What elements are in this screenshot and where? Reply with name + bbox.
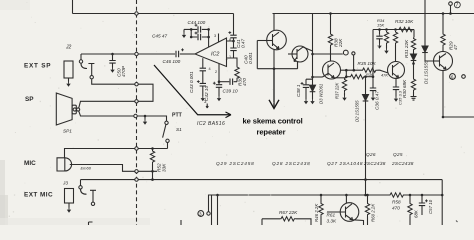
- svg-text:2SC2438: 2SC2438: [363, 161, 386, 166]
- svg-text:R46 2.2K: R46 2.2K: [314, 203, 319, 222]
- wire top rail left: [73, 13, 234, 15]
- junction R38 rail: [329, 12, 332, 15]
- svg-text:22K: 22K: [338, 38, 343, 48]
- terminal 3 circled: [198, 211, 204, 217]
- junction terminal 7 rail: [449, 12, 452, 15]
- node feedthrough mic hot: [135, 147, 138, 150]
- svg-text:4: 4: [209, 67, 211, 71]
- svg-text:2: 2: [215, 70, 217, 74]
- pin 3 stub: [218, 34, 220, 43]
- svg-text:R67 22K: R67 22K: [279, 210, 298, 215]
- switch S1 PTT: [165, 121, 168, 124]
- resistor R38 22K: [330, 14, 332, 34]
- node terminal open circle: [352, 52, 355, 55]
- svg-text:2SC2438: 2SC2438: [391, 161, 414, 166]
- wire mic return stub: [138, 170, 157, 172]
- junction mid vertical node a: [311, 53, 314, 56]
- speck: [456, 221, 458, 223]
- LEFT TEXT LABELS: [24, 63, 53, 199]
- capacitor C41 0.47: [230, 35, 236, 38]
- resistor R33: [393, 31, 397, 45]
- junction terminal stub: [353, 69, 356, 72]
- dashed boundary line: [136, 0, 138, 225]
- svg-text:MIC: MIC: [24, 160, 36, 167]
- svg-text:R61: R61: [327, 213, 336, 218]
- bold annotation text ke skema control repeater: [243, 116, 303, 136]
- svg-text:R36: R36: [366, 72, 374, 77]
- svg-text:EXT SP: EXT SP: [24, 63, 51, 70]
- svg-text:S1: S1: [176, 127, 182, 132]
- junction D2 top: [364, 75, 367, 78]
- capacitor C38 1: [306, 79, 313, 84]
- junction C37 rail: [378, 28, 381, 31]
- svg-text:3: 3: [214, 34, 216, 38]
- wire mic hot: [65, 149, 136, 158]
- capacitor C43 0.001: [202, 58, 204, 68]
- wire to speaker plus: [80, 100, 135, 102]
- svg-text:C38 1: C38 1: [296, 84, 301, 97]
- RIGHT TEXT LABELS: [296, 2, 460, 122]
- svg-text:R31 22K: R31 22K: [404, 39, 409, 58]
- svg-text:repeater: repeater: [256, 127, 285, 136]
- junction C45 right: [207, 36, 210, 39]
- C44/C45 feedback caps network: [184, 28, 209, 30]
- junction C44 left top: [190, 28, 193, 31]
- wire C44 network right node to pin: [208, 29, 210, 47]
- wire C44 network left node: [190, 29, 192, 37]
- svg-text:3: 3: [199, 212, 202, 217]
- junction output node: [273, 67, 276, 70]
- svg-text:R37 22K: R37 22K: [335, 82, 340, 99]
- diode D3 W2061: [312, 77, 314, 85]
- wire mic return: [70, 165, 135, 172]
- resistor R52 33K: [150, 150, 154, 164]
- svg-text:Em60: Em60: [81, 166, 92, 171]
- diode below R31: [411, 54, 417, 60]
- transistor Q (circle5): [434, 52, 453, 71]
- power column C41 / C40: [233, 14, 235, 35]
- svg-text:D3 W2061: D3 W2061: [319, 83, 324, 104]
- mid vertical from rail: [312, 14, 314, 78]
- capacitor C40 0.001: [230, 48, 236, 51]
- svg-text:C57 10: C57 10: [428, 199, 433, 214]
- junction pin 8 node: [232, 40, 235, 43]
- wire J2 to speaker loop: [92, 79, 135, 84]
- resistor R32 10K: [398, 27, 414, 31]
- diode D1 column: [424, 0, 426, 46]
- pin 3 callout arrow: [206, 104, 208, 109]
- svg-text:IC2: IC2: [211, 51, 219, 57]
- junction D2 bus: [364, 194, 367, 197]
- transistor Q (circle1): [273, 14, 275, 31]
- svg-text:Q26: Q26: [366, 152, 376, 157]
- junction D3 node: [311, 76, 314, 79]
- svg-text:R30 68K: R30 68K: [402, 79, 407, 98]
- junction R31 column: [412, 62, 415, 65]
- resistor R30 68K: [411, 78, 415, 92]
- capacitor C36 0.47: [370, 88, 376, 91]
- junction C36 column: [372, 75, 375, 78]
- scan shading left edge: [0, 160, 5, 225]
- capacitor C37 1: [379, 30, 381, 36]
- transistor Q (circle2): [292, 46, 308, 62]
- junction C57 bus: [421, 194, 424, 197]
- junction R60 bus: [366, 194, 369, 197]
- svg-text:Q29 2SC2458: Q29 2SC2458: [216, 161, 255, 166]
- J3 tip contact: [80, 180, 82, 186]
- junction parallel R upper: [345, 69, 348, 72]
- node feedthrough mic return: [135, 170, 138, 173]
- capacitor C39 10: [216, 85, 222, 88]
- base bus line: [313, 76, 323, 78]
- speaker SP1: [56, 93, 72, 125]
- diode D2 1S1555: [365, 77, 367, 95]
- bottom bus: [212, 195, 390, 225]
- svg-text:470: 470: [242, 78, 247, 86]
- svg-text:C39 10: C39 10: [223, 89, 239, 94]
- junction C44 right top: [207, 28, 210, 31]
- jack J3 ext mic: [65, 189, 74, 204]
- svg-text:J2: J2: [65, 45, 72, 51]
- svg-text:47: 47: [453, 44, 458, 50]
- junction bus left: [216, 194, 219, 197]
- node circled a: [343, 50, 348, 55]
- junction R52 tap: [151, 178, 154, 181]
- junction speaker return ground: [144, 115, 147, 118]
- svg-text:Q25: Q25: [393, 152, 403, 157]
- svg-text:15K: 15K: [377, 23, 384, 28]
- junction R33 rail: [394, 28, 397, 31]
- svg-text:R60 2.2K: R60 2.2K: [371, 203, 376, 222]
- svg-text:470P: 470P: [121, 65, 126, 77]
- svg-text:C46 100: C46 100: [163, 59, 181, 64]
- main audio line to EXT SP: [81, 53, 175, 55]
- big down arrow: [273, 69, 275, 107]
- transistor Q (circle4): [388, 62, 405, 79]
- BOTTOM TEXT LABELS: [199, 152, 433, 224]
- node feedthrough ext mic line: [135, 178, 138, 181]
- resistor R58 470 on bus: [389, 193, 405, 197]
- resistor R37 22K: [345, 77, 347, 79]
- resistor R36 47K: [346, 76, 349, 78]
- capacitor C45 47: [198, 34, 201, 40]
- terminal hook bottom left: [209, 195, 212, 212]
- resistor 68K: [409, 195, 411, 203]
- junction Q61 collector bus: [345, 194, 348, 197]
- svg-text:Q28 2SC2438: Q28 2SC2438: [272, 161, 311, 166]
- svg-text:C44 100: C44 100: [188, 20, 206, 25]
- J2 tip contact: [80, 54, 82, 60]
- svg-text:0.001: 0.001: [248, 52, 253, 64]
- resistor R39 470: [227, 58, 238, 66]
- capacitor series to R39: [230, 79, 233, 85]
- junction bus right end: [441, 194, 444, 197]
- junction R29 rail: [442, 12, 445, 15]
- node feedthrough ext-sp loop lower: [135, 100, 138, 103]
- annotation arrow to repeater control: [154, 65, 279, 118]
- svg-text:D2 1S1555: D2 1S1555: [355, 100, 360, 122]
- svg-text:C36 0.47: C36 0.47: [375, 91, 380, 110]
- junction R52 bottom: [151, 170, 154, 173]
- ground at mic return: [144, 116, 146, 120]
- svg-text:SP: SP: [25, 96, 34, 103]
- svg-text:C42 10: C42 10: [204, 85, 209, 101]
- svg-text:R58: R58: [392, 200, 401, 205]
- resistor R46 2.2K: [320, 195, 322, 203]
- terminal 6: [450, 74, 456, 80]
- wire right end drop: [441, 180, 443, 225]
- wire mic hot to S1: [138, 148, 167, 150]
- svg-text:D1 1S1555: D1 1S1555: [424, 60, 429, 84]
- junction C45 left: [190, 36, 193, 39]
- output node line: [257, 41, 297, 69]
- svg-text:1: 1: [229, 55, 231, 59]
- pin 2 stub and C39 node: [218, 64, 220, 85]
- svg-text:EXT MIC: EXT MIC: [24, 192, 53, 199]
- svg-text:IC2 BA516: IC2 BA516: [197, 121, 225, 127]
- capacitor C46 100 coupling: [176, 51, 179, 57]
- parallel node lines: [341, 70, 362, 77]
- microphone symbol: [57, 158, 72, 171]
- node line to a: [313, 53, 343, 55]
- transistor Q (circle3): [323, 61, 341, 79]
- svg-text:0.47: 0.47: [241, 38, 246, 48]
- right rail feed column: [372, 30, 374, 88]
- svg-text:R35 10K: R35 10K: [358, 61, 377, 66]
- junction pin2 node: [218, 80, 221, 83]
- wire speaker top terminal: [79, 101, 81, 108]
- svg-text:J3: J3: [62, 181, 68, 186]
- junction R46 bus: [320, 194, 323, 197]
- op-amp U IC2 (points left): [195, 38, 227, 67]
- resistor R34 15K: [384, 31, 388, 45]
- wire to PTT: [137, 116, 166, 121]
- junction emitter line: [442, 116, 445, 119]
- transistor Q61: [345, 195, 347, 204]
- capacitor C42 10: [200, 83, 206, 86]
- resistor R67 22K: [262, 218, 280, 220]
- svg-text:SP1: SP1: [63, 128, 72, 133]
- svg-text:8: 8: [229, 38, 231, 42]
- node terminal stub: [353, 55, 355, 70]
- cut wire stub bottom: [180, 220, 182, 225]
- junction R52 top: [151, 147, 154, 150]
- ext mic line: [81, 179, 136, 181]
- wire ext-sp loop: [138, 84, 153, 101]
- terminal 7: [450, 5, 452, 13]
- svg-text:470: 470: [392, 206, 400, 211]
- wire top rail right: [273, 13, 474, 15]
- junction 68K bus: [409, 194, 412, 197]
- svg-text:6: 6: [451, 75, 454, 80]
- J2 break contact hook: [81, 64, 87, 69]
- ground C44 network: [182, 33, 186, 38]
- svg-text:C43 0.001: C43 0.001: [189, 71, 194, 93]
- capacitor C57 10: [421, 195, 423, 203]
- bias rail: [373, 29, 414, 31]
- svg-text:7: 7: [226, 59, 228, 63]
- svg-text:47K: 47K: [381, 73, 388, 78]
- svg-text:Q27 2SA1048: Q27 2SA1048: [327, 161, 363, 166]
- svg-text:R32 10K: R32 10K: [395, 19, 414, 24]
- capacitor C50 470P: [112, 54, 114, 60]
- svg-text:ke skema control: ke skema control: [243, 116, 303, 125]
- junction parallel R lower: [345, 75, 348, 78]
- svg-text:68K: 68K: [414, 209, 419, 218]
- jack J2: [64, 61, 73, 78]
- node feedthrough on top rail: [135, 12, 138, 15]
- cut mark bottom left: [89, 222, 93, 225]
- wire speaker bottom terminal: [79, 111, 134, 116]
- node feedthrough audio line: [135, 52, 138, 55]
- junction D2 line crossing: [364, 178, 367, 181]
- resistor R60 2.2K: [367, 195, 369, 203]
- svg-text:3.3K: 3.3K: [327, 219, 338, 224]
- svg-text:33K: 33K: [162, 163, 167, 172]
- resistor R31 22K column: [413, 30, 415, 38]
- wire D2 down to bottom bus: [365, 101, 367, 195]
- node C50 junction: [111, 53, 114, 56]
- node feedthrough speaker return: [134, 114, 137, 117]
- junction R34 rail: [385, 28, 388, 31]
- resistor R35 10K: [362, 68, 378, 72]
- J3 break contact hook: [81, 189, 87, 194]
- wire ext mic bus: [138, 179, 442, 181]
- node feedthrough ext-sp loop upper: [135, 83, 138, 86]
- MIDDLE TEXT LABELS: [152, 20, 253, 127]
- wire top-left box vertical: [72, 0, 74, 14]
- capacitor C35 3.3: [395, 78, 397, 86]
- svg-text:PTT: PTT: [172, 112, 183, 118]
